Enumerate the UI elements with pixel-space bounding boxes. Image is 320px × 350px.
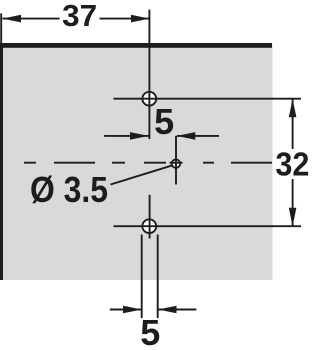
svg-text:5: 5 — [154, 101, 174, 142]
svg-text:37: 37 — [62, 0, 97, 33]
svg-text:Ø 3.5: Ø 3.5 — [30, 169, 108, 210]
svg-text:32: 32 — [275, 146, 309, 183]
svg-text:5: 5 — [140, 312, 160, 350]
